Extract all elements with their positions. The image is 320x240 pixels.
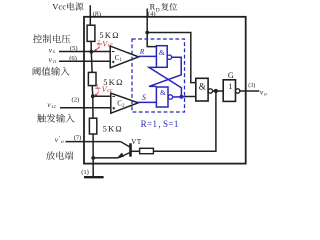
- op-amp comparator C1: [110, 46, 138, 68]
- label threshold input 阈值输入: [33, 67, 70, 76]
- svg-text:VT: VT: [131, 138, 142, 146]
- wire base resistor to VT base: [131, 150, 140, 152]
- ground bar pin 1: [84, 176, 104, 178]
- svg-text:S: S: [142, 93, 146, 102]
- svg-text:&: &: [199, 82, 206, 92]
- arrow to node A (red): [95, 47, 99, 50]
- wire pin 2 trigger to C2 non-inverting input: [60, 107, 111, 109]
- node RD junction: [145, 31, 149, 35]
- svg-text:1: 1: [228, 82, 232, 91]
- label discharge terminal 放电端: [46, 151, 73, 159]
- svg-text:&: &: [159, 48, 165, 57]
- wire VT emitter to ground node: [93, 157, 118, 159]
- wire G3 out: [213, 90, 224, 92]
- node Q output junction (blue): [179, 95, 183, 99]
- wire RD down into latch gate: [147, 33, 156, 47]
- svg-text:&: &: [160, 88, 166, 97]
- wire node A to R2: [90, 52, 93, 73]
- nand gate G2 (S): [156, 87, 168, 107]
- wire output pin 3: [240, 90, 259, 92]
- svg-text:Vcc: Vcc: [52, 2, 66, 12]
- node G3 output junction: [214, 89, 218, 93]
- svg-text:(7): (7): [74, 135, 82, 142]
- svg-text:S=1: S=1: [163, 119, 179, 129]
- resistor R1 5K: [87, 25, 95, 41]
- svg-text:(1): (1): [81, 169, 89, 176]
- wire G2 output cross-couple to G1 input: [173, 96, 182, 98]
- wire G1 output cross-couple to G2 input: [149, 57, 181, 86]
- svg-text:o: o: [264, 92, 267, 98]
- wire RD to output gate: [147, 33, 196, 83]
- svg-text:(4): (4): [148, 11, 156, 18]
- arrow to node B (red): [95, 93, 98, 95]
- svg-text:(3): (3): [248, 82, 255, 89]
- wire R2 to node B: [91, 86, 94, 97]
- ground rail / outer frame of 555 IC: [84, 17, 246, 164]
- wire C2 output S to latch: [138, 101, 156, 103]
- nand gate G1 (R): [156, 46, 167, 68]
- svg-text:R=1: R=1: [141, 119, 158, 129]
- wire node B to C2 inverting input: [93, 95, 111, 97]
- svg-text:(8): (8): [93, 11, 102, 19]
- svg-text:11: 11: [53, 59, 57, 64]
- wire latch output to output gate: [181, 96, 186, 98]
- svg-text:,: ,: [158, 119, 160, 129]
- resistor R2 5K: [88, 72, 96, 85]
- svg-text:R: R: [139, 47, 145, 56]
- label control voltage 控制电压: [33, 34, 70, 43]
- op-amp comparator C2: [111, 93, 138, 113]
- and gate G3: [196, 78, 208, 101]
- wire R3 to ground: [92, 134, 94, 177]
- svg-text:(2): (2): [72, 97, 80, 104]
- wire RD stem pin 4: [146, 9, 148, 34]
- node ground junction with VT emitter: [91, 156, 95, 160]
- wire pin 6 threshold to C1 non-inverting input: [59, 60, 110, 62]
- resistor R3 5K: [89, 118, 96, 134]
- wire pin 7 to VT collector: [66, 141, 121, 143]
- svg-text:D: D: [156, 7, 160, 13]
- svg-text:G: G: [228, 71, 234, 80]
- wire G3 output down to base resistor: [153, 91, 216, 151]
- wire pin 5 to node A and C1 inverting input: [59, 51, 110, 53]
- wire C1 output R to latch: [139, 55, 157, 57]
- wire R1 to node A: [90, 41, 92, 52]
- wire Vcc stem pin 8: [89, 5, 91, 25]
- label trigger input 触发输入: [37, 114, 74, 123]
- svg-text:o: o: [61, 139, 64, 145]
- SR latch dashed box: [132, 39, 185, 112]
- node A (2/3 Vcc): [89, 50, 93, 54]
- resistor base R: [140, 148, 154, 153]
- svg-text:5KΩ: 5KΩ: [103, 124, 123, 133]
- wire node B to R3: [92, 96, 94, 118]
- node B (1/3 Vcc): [91, 94, 95, 98]
